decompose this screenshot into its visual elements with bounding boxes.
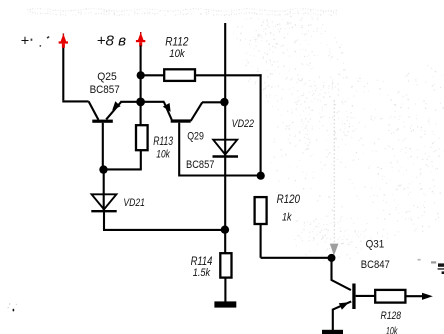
svg-text:R113: R113 xyxy=(153,136,173,148)
wire: emitter rail Q25-Q29 xyxy=(120,101,164,103)
wire: VD21 cathode to R114 node xyxy=(103,229,225,231)
wire: R120 bottom lead and run to Q31 xyxy=(261,224,332,258)
svg-text:VD21: VD21 xyxy=(123,197,144,209)
wire: R113 bottom lead to Q25 base node xyxy=(104,150,142,169)
stray mark: dark dash right edge xyxy=(438,263,444,266)
diode VD21 xyxy=(91,170,116,230)
svg-text:Q25: Q25 xyxy=(97,71,117,83)
svg-text:R120: R120 xyxy=(277,192,301,206)
stray mark: dark tick right edge xyxy=(442,271,444,274)
svg-text:1.5k: 1.5k xyxy=(193,267,211,279)
ground (below Q31 emitter) xyxy=(322,330,343,334)
svg-text:BC857: BC857 xyxy=(90,84,120,96)
svg-text:R112: R112 xyxy=(165,34,188,48)
wire: R128 output lead xyxy=(405,295,422,297)
svg-text:10k: 10k xyxy=(169,48,185,60)
power +8v arrow (center, red) xyxy=(136,32,145,46)
stray mark: gray dash right edge xyxy=(431,261,436,263)
wire: left +8v horizontal to Q25 collector xyxy=(62,100,88,102)
stray mark: faint dash near BC847 xyxy=(418,259,421,261)
diode VD22 xyxy=(213,140,239,157)
resistor R128 xyxy=(375,290,405,303)
svg-text:BC857: BC857 xyxy=(186,159,214,171)
node: junction Q29 collector / central net xyxy=(220,98,228,106)
stray mark: comma bottom left xyxy=(13,309,15,312)
wire: R112 right lead to corner xyxy=(195,74,262,76)
svg-text:1k: 1k xyxy=(282,212,292,224)
svg-text:VD22: VD22 xyxy=(232,118,254,130)
transistor Q31 (BC847 NPN) xyxy=(332,258,376,330)
wire: R114 bottom lead xyxy=(224,278,226,302)
ground (below R114) xyxy=(214,301,236,307)
transistor Q25 (BC857 PNP) xyxy=(89,101,122,166)
node: junction R112/R120/Q29 base xyxy=(257,172,265,180)
wire: vertical from R112 corner down to R120 node xyxy=(260,74,262,175)
svg-text:Q31: Q31 xyxy=(366,239,385,251)
wire: R114 top lead xyxy=(224,230,226,254)
wire: central vertical net (VD22 anode branch) xyxy=(224,23,226,230)
svg-text:R114: R114 xyxy=(191,254,213,268)
wire: R112 left lead xyxy=(141,74,165,76)
svg-text:+8 в: +8 в xyxy=(97,32,127,49)
resistor R120 xyxy=(255,197,267,224)
svg-text:10k: 10k xyxy=(156,149,170,161)
ghost wire: faint erased collector feed above Q31 xyxy=(333,100,335,242)
node: junction VD21/VD22/R114 xyxy=(221,226,229,234)
svg-text:10k: 10k xyxy=(386,326,398,334)
wire: R113 top lead xyxy=(140,102,142,125)
resistor R114 xyxy=(220,253,231,277)
node: junction R120 wire / Q31 collector xyxy=(328,254,336,262)
svg-text:R128: R128 xyxy=(381,310,402,322)
node: junction Q25 base / R113 / VD21 xyxy=(99,165,107,173)
svg-text:BC847: BC847 xyxy=(361,259,390,271)
output arrow (right) xyxy=(422,293,433,300)
transistor Q29 (BC857 PNP) xyxy=(163,102,221,177)
resistor R113 xyxy=(136,125,148,150)
resistor R112 xyxy=(164,69,195,81)
svg-text:Q29: Q29 xyxy=(187,131,204,143)
node: junction dot R112 left / +8v wire xyxy=(137,71,145,79)
power +8v arrow (left, red) xyxy=(59,33,68,47)
node: emitter rail junction (R113 top / +8v) xyxy=(136,98,145,107)
wire: left +8v supply vertical xyxy=(62,46,64,100)
wire: center +8v vertical down to emitter rail xyxy=(140,46,142,102)
svg-text:+: + xyxy=(21,34,29,50)
wire: Q29 base horizontal to R120 top node xyxy=(179,174,260,176)
